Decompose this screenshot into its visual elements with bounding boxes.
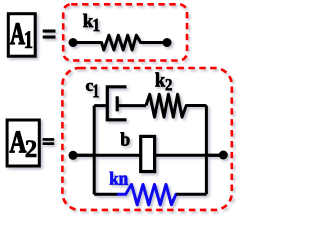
label b [121, 132, 130, 145]
node left A1 [69, 38, 78, 47]
node right A2 [219, 151, 228, 160]
damper b rectangle [141, 136, 155, 171]
damper c1 piston [116, 96, 119, 111]
label A2 [10, 131, 26, 152]
box around A2 label [7, 120, 39, 166]
dashed box A1 network [63, 4, 187, 60]
label c1 [86, 83, 93, 91]
middle wire to right node [206, 154, 223, 157]
node right A1 [163, 38, 172, 47]
label kn [110, 172, 119, 185]
damper c1 cup [107, 87, 126, 120]
wire with spring k1 [73, 35, 167, 50]
spring kn (blue) [117, 184, 177, 204]
middle branch wire [73, 154, 223, 157]
bottom branch right wire [176, 193, 206, 196]
right rail [205, 106, 208, 195]
node left A2 [69, 151, 78, 160]
bottom branch left wire [94, 193, 117, 196]
equals sign 2 [43, 138, 55, 141]
wire left node to left rail [73, 154, 94, 157]
label A1 [10, 23, 24, 44]
damper c1 rod [117, 104, 146, 107]
label k2 [155, 72, 165, 86]
wire top-left into damper [94, 104, 107, 107]
dashed box A2 network [62, 68, 231, 210]
label k1 [83, 14, 93, 27]
left rail [93, 106, 96, 195]
spring k2 [146, 94, 206, 117]
box around A1 label [8, 14, 35, 57]
equals sign 1 [43, 30, 56, 33]
